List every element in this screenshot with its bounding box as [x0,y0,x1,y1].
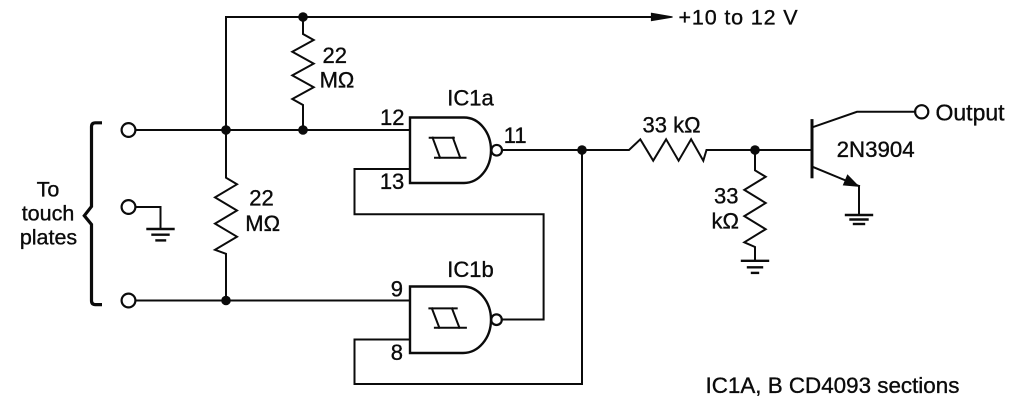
terminal: Output [915,105,928,118]
junction dot: R1 bottom on top plate wire [298,125,308,135]
svg-text:9: 9 [391,277,403,302]
op-amp gate IC1b (NAND CD4093) body [410,287,491,354]
resistor R4 33k (vertical to ground) [744,150,765,260]
svg-text:MΩ: MΩ [245,211,280,236]
ground: emitter ground symbol [846,215,872,224]
svg-text:To: To [37,177,60,201]
junction dot: IC1a output node [577,145,587,155]
IC1a hysteresis symbol [430,138,466,158]
brace: To touch plates [84,123,102,305]
terminal: touch plate 3 [122,294,136,308]
svg-text:22: 22 [323,43,347,68]
svg-text:IC1b: IC1b [447,257,493,282]
svg-text:touch: touch [22,202,75,226]
wire: IC1a pin 13 input stub [355,168,411,170]
svg-text:MΩ: MΩ [320,68,355,93]
svg-text:Output: Output [936,100,1006,126]
svg-text:33: 33 [714,183,738,208]
op-amp gate IC1a (NAND CD4093) body [410,118,491,184]
svg-text:11: 11 [504,123,527,148]
resistor R1 22M (vertical, from +V rail to top plate wire) [292,17,313,130]
transistor Q1 2N3904 base bar [811,121,814,177]
terminal: touch plate 2 (grounded) [122,200,136,214]
svg-text:33 kΩ: 33 kΩ [643,113,701,138]
svg-text:IC1a: IC1a [447,86,494,111]
terminal: touch plate 1 [122,123,136,137]
emitter arrowhead [844,175,859,186]
junction dot: rail on top plate wire [221,125,231,135]
junction dot: R2 bottom on bottom plate wire [221,296,231,306]
svg-text:IC1A, B CD4093 sections: IC1A, B CD4093 sections [706,373,960,398]
ground: plate 2 ground symbol [148,229,174,240]
svg-text:kΩ: kΩ [711,208,738,233]
ground: R4 ground symbol [742,261,768,273]
svg-text:8: 8 [391,340,403,365]
junction dot: base node [750,145,760,155]
svg-text:22: 22 [249,186,273,211]
wire: IC1a output to junction [502,149,582,151]
wire: feedback IC1a output down to pin 8 run [355,150,583,384]
wire: left vertical rail from +V to top plate wire [225,17,227,130]
svg-text:plates: plates [20,226,77,250]
resistor R3 33k (horizontal) [582,139,755,160]
wire: emitter to ground [858,186,860,213]
transistor Q1 emitter with arrow [812,167,859,186]
wire: base node to transistor base [755,149,811,151]
junction dot: R1 top on +V rail [298,12,308,22]
IC1a output bubble [491,145,502,156]
svg-text:2N3904: 2N3904 [837,137,915,162]
wire: bottom plate wire to IC1b pin 9 [136,300,411,302]
IC1b hysteresis symbol [429,308,466,327]
transistor Q1 collector [812,112,915,128]
wire: feedback IC1b output to IC1a pin 13 [355,169,544,320]
svg-text:+10 to 12 V: +10 to 12 V [679,5,799,29]
resistor R2 22M (vertical, between plate wires) [215,130,237,301]
svg-text:13: 13 [380,169,404,194]
wire: top plate wire to IC1a pin 12 [136,129,411,131]
svg-text:12: 12 [380,105,404,130]
wire: +V top rail [226,16,653,18]
supply arrowhead [652,13,673,20]
IC1b output bubble [491,314,502,325]
wire: plate 2 to ground [136,207,161,228]
